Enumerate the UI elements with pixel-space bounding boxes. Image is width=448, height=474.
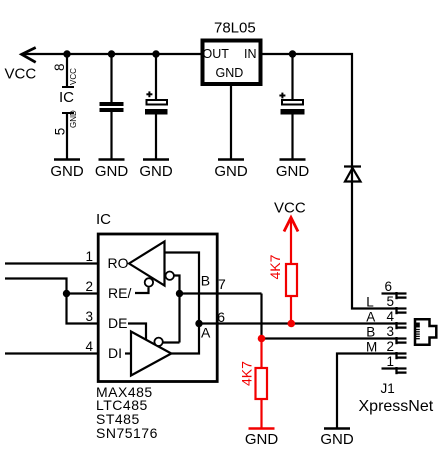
svg-text:GND: GND xyxy=(216,66,244,80)
capacitor C1 xyxy=(100,54,124,160)
junction A net xyxy=(195,320,202,327)
wire regulator GND pin xyxy=(230,86,232,160)
ground (C2) xyxy=(139,160,173,181)
svg-text:GND: GND xyxy=(50,163,84,180)
connector pin 3 bracket xyxy=(397,337,407,344)
ground (R2, red bar) xyxy=(245,429,279,449)
wire RE to enable bubble xyxy=(135,287,149,293)
svg-text:B: B xyxy=(201,272,210,288)
svg-text:3: 3 xyxy=(386,324,394,339)
svg-text:DE: DE xyxy=(108,315,127,331)
wire pin 2 RE stub xyxy=(67,292,100,294)
wire M pin 2 to GND xyxy=(337,354,407,429)
svg-text:6: 6 xyxy=(217,309,225,325)
wire receiver input A xyxy=(165,253,200,324)
wire DI to driver xyxy=(125,352,131,354)
IC power pin 5 GND xyxy=(53,110,79,160)
connector pin 4 bracket xyxy=(397,322,407,329)
junction on rail at IC pin 8 xyxy=(63,50,70,57)
wire RE net from left with jog down to DE xyxy=(5,279,99,324)
svg-text:L: L xyxy=(366,295,374,310)
voltage regulator 78L05 xyxy=(203,20,261,85)
junction on rail at C2 xyxy=(152,50,159,57)
IC variants list xyxy=(96,384,158,441)
wire top rail left xyxy=(22,53,201,55)
driver inverting output bubble xyxy=(154,338,162,346)
capacitor C2 polarized xyxy=(145,54,168,160)
svg-text:3: 3 xyxy=(85,309,93,324)
connector pin 6 stub xyxy=(382,292,407,294)
svg-text:4K7: 4K7 xyxy=(267,254,283,279)
wire driver bubble to B net xyxy=(163,341,180,343)
svg-text:VCC: VCC xyxy=(274,200,306,217)
wire VCC to R1 (red) xyxy=(290,218,292,265)
svg-text:A: A xyxy=(201,325,211,341)
junction red on A line xyxy=(288,320,296,328)
svg-text:4: 4 xyxy=(85,339,93,354)
svg-text:6: 6 xyxy=(384,279,392,294)
wire B line to R2 (red) xyxy=(260,339,262,369)
svg-text:B: B xyxy=(366,325,375,340)
svg-text:78L05: 78L05 xyxy=(214,20,256,37)
wire pin 4 DI xyxy=(5,352,99,354)
wire pin 7 B xyxy=(180,292,262,294)
resistor R2 4K7 xyxy=(256,368,268,399)
svg-text:IN: IN xyxy=(244,47,257,61)
svg-text:SN75176: SN75176 xyxy=(96,425,158,441)
connector pin 2 bracket xyxy=(397,352,407,359)
svg-text:4K7: 4K7 xyxy=(238,361,254,386)
ground (IC pin 5) xyxy=(50,160,84,181)
junction red on B line xyxy=(258,335,266,343)
diode D1 xyxy=(344,167,361,182)
svg-text:DI: DI xyxy=(108,345,122,361)
svg-text:RE/: RE/ xyxy=(108,285,131,301)
svg-text:GND: GND xyxy=(214,163,248,180)
junction on rail at C3 xyxy=(289,50,296,57)
driver triangle xyxy=(131,332,171,376)
svg-text:5: 5 xyxy=(386,294,394,309)
wire B net jog to connector pin 3 xyxy=(262,294,397,339)
wire R2 to GND (red) xyxy=(260,399,262,429)
svg-text:M: M xyxy=(366,340,377,355)
power arrow VCC (red) xyxy=(284,218,298,232)
ground (C1) xyxy=(95,160,129,181)
junction B net xyxy=(176,290,183,297)
power flag VCC (top left arrow) xyxy=(22,48,36,63)
svg-text:VCC: VCC xyxy=(69,68,78,85)
receiver triangle xyxy=(129,242,165,286)
svg-text:2: 2 xyxy=(85,279,93,294)
connector pin 5 bracket xyxy=(397,307,407,314)
svg-text:A: A xyxy=(366,310,375,325)
connector pin 1 stub xyxy=(382,367,407,369)
junction RE xyxy=(63,290,70,297)
svg-text:2: 2 xyxy=(386,339,394,354)
connector jack icon xyxy=(415,319,436,345)
receiver input B bubble xyxy=(166,272,174,280)
wire pin 6 A line to connector pin 4 xyxy=(199,322,397,324)
svg-text:5: 5 xyxy=(53,128,68,136)
svg-text:OUT: OUT xyxy=(203,47,230,61)
svg-text:7: 7 xyxy=(218,276,226,292)
junction on rail at C1 xyxy=(108,50,115,57)
IC power pin 8 VCC xyxy=(52,54,78,87)
svg-text:1: 1 xyxy=(386,354,394,369)
ground (C3) xyxy=(276,160,310,181)
svg-text:GND: GND xyxy=(69,110,78,128)
ground (M) xyxy=(320,429,354,449)
resistor R1 4K7 xyxy=(286,264,297,296)
svg-text:1: 1 xyxy=(85,249,93,264)
ground (regulator) xyxy=(214,160,248,181)
svg-text:GND: GND xyxy=(245,431,279,448)
wire top rail right from IN to connector pin 5 xyxy=(263,54,397,309)
connector pin 6 bracket xyxy=(397,292,407,299)
svg-text:GND: GND xyxy=(320,431,354,448)
IC U2 box xyxy=(98,234,217,382)
svg-text:VCC: VCC xyxy=(5,66,37,83)
svg-text:RO: RO xyxy=(108,255,129,271)
svg-text:J1: J1 xyxy=(381,381,395,396)
wire R1 to A line (red) xyxy=(290,296,292,324)
svg-text:IC: IC xyxy=(59,89,74,106)
svg-text:IC: IC xyxy=(96,211,111,228)
wire pin 1 RO xyxy=(5,262,99,264)
svg-text:4: 4 xyxy=(386,309,394,324)
connector pin 1 bracket xyxy=(397,367,407,374)
capacitor C3 polarized xyxy=(279,54,304,160)
svg-text:GND: GND xyxy=(139,163,173,180)
wire DE to driver xyxy=(128,324,146,340)
svg-text:8: 8 xyxy=(52,63,67,71)
receiver enable bubble xyxy=(145,278,153,286)
wire driver output to A net xyxy=(171,324,199,354)
svg-text:GND: GND xyxy=(95,163,129,180)
svg-text:GND: GND xyxy=(276,163,310,180)
svg-text:XpressNet: XpressNet xyxy=(359,398,434,415)
wire B bubble to B net xyxy=(175,276,180,343)
